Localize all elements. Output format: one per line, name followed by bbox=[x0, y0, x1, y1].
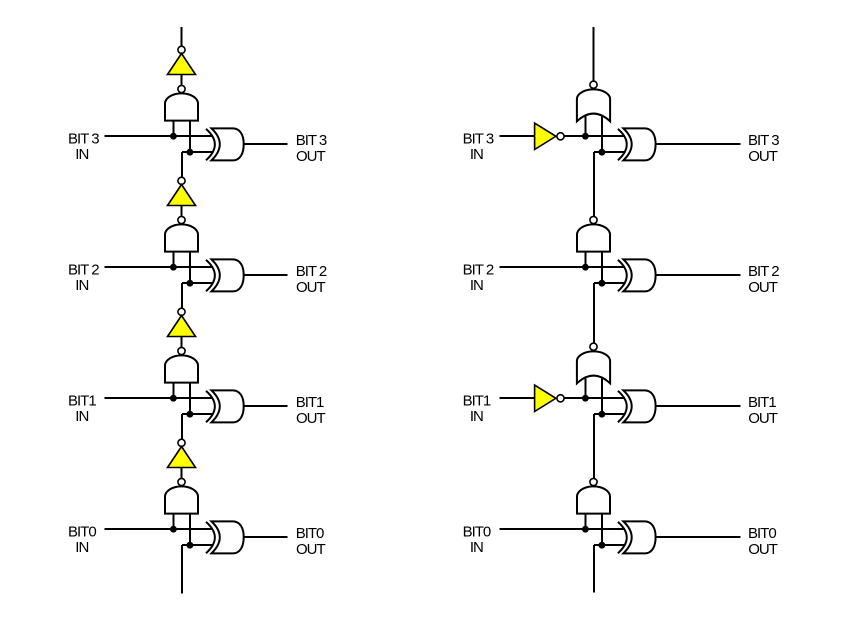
svg-text:OUT: OUT bbox=[748, 148, 778, 165]
wire: NAND right input leg (BIT 3, left col) bbox=[189, 120, 191, 152]
junction node: BIT1 IN to NAND left input bbox=[170, 395, 177, 402]
svg-text:OUT: OUT bbox=[296, 148, 326, 165]
svg-text:BIT1: BIT1 bbox=[68, 392, 96, 409]
svg-text:BIT 3: BIT 3 bbox=[748, 132, 779, 149]
junction node: BIT1 IN to gate left input (right col) bbox=[582, 395, 589, 402]
wire: BIT0 IN line (left col) bbox=[104, 528, 213, 530]
NOR output bubble (BIT 3, right col) bbox=[590, 81, 597, 88]
wire: NAND right input leg (BIT1, left col) bbox=[189, 382, 191, 414]
XOR gate (BIT1, right col) bbox=[618, 391, 627, 422]
svg-text:IN: IN bbox=[75, 146, 88, 163]
wire: top input stub of left column bbox=[181, 27, 183, 47]
svg-text:IN: IN bbox=[470, 539, 483, 556]
wire: XOR lower input (BIT 2, left col) bbox=[182, 282, 214, 284]
inverter triangle (BIT1 stage, left col) bbox=[168, 316, 196, 337]
junction node: BIT 2 IN to gate left input (right col) bbox=[582, 264, 589, 271]
NAND gate (BIT1, left col) bbox=[165, 355, 198, 382]
junction node: feedback to gate right input (BIT1, right col) bbox=[599, 411, 606, 418]
wire: NAND left input leg (BIT0, left col) bbox=[172, 513, 174, 529]
wire: vertical link to next stage below (BIT1, right col) bbox=[593, 414, 595, 478]
wire: NOR left input leg (BIT1, right col) bbox=[584, 377, 586, 398]
inverter triangle (BIT 2 stage, left col) bbox=[168, 185, 196, 206]
wire: XOR lower input (BIT 3, left col) bbox=[182, 151, 214, 153]
junction node: feedback to NAND right input (BIT0, left col) bbox=[187, 542, 194, 549]
junction node: feedback to NAND right input (BIT 2, left col) bbox=[187, 280, 194, 287]
XOR gate (BIT0, left col) bbox=[206, 522, 215, 553]
wire: inverter output to XOR (BIT 3, right col) bbox=[564, 135, 625, 137]
NAND gate (BIT 3, left col) bbox=[165, 93, 198, 120]
NAND output bubble (BIT1, left col) bbox=[178, 347, 185, 354]
wire: BIT 2 IN line (left col) bbox=[104, 266, 213, 268]
wire: NAND right input leg (BIT 2, left col) bbox=[189, 251, 191, 283]
svg-text:BIT 3: BIT 3 bbox=[463, 130, 494, 147]
inverter output bubble (BIT1, right col) bbox=[557, 395, 564, 402]
wire: NOR left input leg (BIT 3, right col) bbox=[584, 115, 586, 136]
wire: NAND left input leg (BIT 3, left col) bbox=[172, 120, 174, 136]
NOR gate (BIT1, right col) bbox=[577, 351, 610, 383]
NOR gate (BIT 3, right col) bbox=[577, 89, 610, 121]
wire: NOR right input leg (BIT1, right col) bbox=[601, 378, 603, 414]
wire: BIT1 IN line to inverter (right col) bbox=[500, 397, 535, 399]
junction node: BIT 3 IN to gate left input (right col) bbox=[582, 133, 589, 140]
wire: XOR lower input (BIT0, right col) bbox=[594, 544, 626, 546]
svg-text:IN: IN bbox=[75, 408, 88, 425]
inverter triangle (BIT1, right col) bbox=[535, 385, 556, 411]
inverter output bubble (BIT0 stage, left col) bbox=[178, 439, 185, 446]
svg-text:OUT: OUT bbox=[296, 541, 326, 558]
junction node: BIT 2 IN to NAND left input bbox=[170, 264, 177, 271]
junction node: BIT0 IN to gate left input (right col) bbox=[582, 526, 589, 533]
svg-text:IN: IN bbox=[470, 408, 483, 425]
XOR gate (BIT1, left col) bbox=[206, 391, 215, 422]
NAND gate (BIT 2, right col) bbox=[577, 224, 610, 251]
wire: XOR lower input (BIT 3, right col) bbox=[594, 151, 626, 153]
wire: vertical link to next stage below (BIT 2, right col) bbox=[593, 283, 595, 343]
wire: BIT 2 IN line (right col) bbox=[500, 266, 625, 268]
wire: NAND left input leg (BIT1, left col) bbox=[172, 382, 174, 398]
NAND output bubble (BIT0, left col) bbox=[178, 478, 185, 485]
junction node: feedback to gate right input (BIT 2, right col) bbox=[599, 280, 606, 287]
wire: inverter input from NAND (BIT 3, left col) bbox=[181, 75, 183, 86]
svg-text:IN: IN bbox=[75, 277, 88, 294]
wire: XOR lower input (BIT0, left col) bbox=[182, 544, 214, 546]
wire: bottom stub of left column bbox=[181, 545, 183, 593]
wire: NAND right input leg (BIT 2, right col) bbox=[601, 251, 603, 283]
svg-text:OUT: OUT bbox=[296, 279, 326, 296]
wire: inverter input from NAND (BIT0, left col) bbox=[181, 468, 183, 479]
wire: top input stub of right column bbox=[593, 27, 595, 81]
XOR gate (BIT 2, left col) bbox=[206, 260, 215, 291]
XOR gate (BIT 3, right col) bbox=[618, 129, 627, 160]
inverter triangle (BIT 3, right col) bbox=[535, 123, 556, 149]
wire: XOR lower input (BIT 2, right col) bbox=[594, 282, 626, 284]
svg-text:BIT 2: BIT 2 bbox=[68, 261, 99, 278]
wire: BIT 3 OUT line (right col) bbox=[656, 143, 741, 145]
svg-text:OUT: OUT bbox=[748, 410, 778, 427]
wire: BIT 3 IN line to inverter (right col) bbox=[500, 135, 535, 137]
svg-text:BIT0: BIT0 bbox=[68, 523, 96, 540]
wire: NAND left input leg (BIT0, right col) bbox=[584, 513, 586, 529]
NAND output bubble (BIT0, right col) bbox=[590, 478, 597, 485]
svg-text:BIT1: BIT1 bbox=[748, 394, 776, 411]
junction node: feedback to NAND right input (BIT 3, left col) bbox=[187, 149, 194, 156]
svg-text:OUT: OUT bbox=[296, 410, 326, 427]
XOR gate (BIT 2, right col) bbox=[618, 260, 627, 291]
wire: BIT 2 OUT line (left col) bbox=[244, 274, 288, 276]
junction node: feedback to gate right input (BIT0, right col) bbox=[599, 542, 606, 549]
wire: vertical link to next stage below (BIT 3, right col) bbox=[593, 152, 595, 216]
junction node: BIT0 IN to NAND left input bbox=[170, 526, 177, 533]
NAND output bubble (BIT 2, right col) bbox=[590, 216, 597, 223]
junction node: feedback to gate right input (BIT 3, right col) bbox=[599, 149, 606, 156]
wire: inverter output to XOR (BIT1, right col) bbox=[564, 397, 625, 399]
wire: BIT 2 OUT line (right col) bbox=[656, 274, 741, 276]
inverter triangle (BIT 3 stage, left col) bbox=[168, 54, 196, 75]
wire: BIT0 IN line (right col) bbox=[500, 528, 625, 530]
NAND gate (BIT 2, left col) bbox=[165, 224, 198, 251]
svg-text:BIT0: BIT0 bbox=[296, 525, 324, 542]
NAND gate (BIT0, left col) bbox=[165, 486, 198, 513]
wire: BIT1 OUT line (right col) bbox=[656, 405, 741, 407]
wire: BIT0 OUT line (right col) bbox=[656, 536, 741, 538]
svg-text:BIT1: BIT1 bbox=[296, 394, 324, 411]
svg-text:BIT1: BIT1 bbox=[463, 392, 491, 409]
wire: BIT 3 OUT line (left col) bbox=[244, 143, 288, 145]
wire: NAND right input leg (BIT0, right col) bbox=[601, 513, 603, 545]
inverter output bubble (BIT 3, right col) bbox=[557, 133, 564, 140]
wire: bottom stub of right column bbox=[593, 545, 595, 592]
inverter output bubble (BIT1 stage, left col) bbox=[178, 308, 185, 315]
wire: BIT 3 IN line (left col) bbox=[104, 135, 213, 137]
svg-text:BIT0: BIT0 bbox=[748, 525, 776, 542]
wire: vertical link to next stage below (BIT 3, left col) bbox=[181, 152, 183, 178]
wire: inverter input from NAND (BIT1, left col) bbox=[181, 337, 183, 348]
svg-text:BIT 2: BIT 2 bbox=[463, 261, 494, 278]
svg-text:OUT: OUT bbox=[748, 279, 778, 296]
junction node: feedback to NAND right input (BIT1, left col) bbox=[187, 411, 194, 418]
wire: BIT1 IN line (left col) bbox=[104, 397, 213, 399]
wire: NAND left input leg (BIT 2, left col) bbox=[172, 251, 174, 267]
wire: XOR lower input (BIT1, right col) bbox=[594, 413, 626, 415]
wire: BIT1 OUT line (left col) bbox=[244, 405, 288, 407]
svg-text:IN: IN bbox=[470, 146, 483, 163]
wire: XOR lower input (BIT1, left col) bbox=[182, 413, 214, 415]
XOR gate (BIT0, right col) bbox=[618, 522, 627, 553]
NAND output bubble (BIT 2, left col) bbox=[178, 216, 185, 223]
wire: vertical link to next stage below (BIT1, left col) bbox=[181, 414, 183, 440]
inverter output bubble (BIT 2 stage, left col) bbox=[178, 177, 185, 184]
wire: inverter input from NAND (BIT 2, left col) bbox=[181, 206, 183, 217]
inverter triangle (BIT0 stage, left col) bbox=[168, 447, 196, 468]
wire: NAND left input leg (BIT 2, right col) bbox=[584, 251, 586, 267]
svg-text:OUT: OUT bbox=[748, 541, 778, 558]
wire: BIT0 OUT line (left col) bbox=[244, 536, 288, 538]
svg-text:BIT 2: BIT 2 bbox=[296, 263, 327, 280]
svg-text:BIT 2: BIT 2 bbox=[748, 263, 779, 280]
svg-text:IN: IN bbox=[470, 277, 483, 294]
wire: NAND right input leg (BIT0, left col) bbox=[189, 513, 191, 545]
NAND output bubble (BIT 3, left col) bbox=[178, 85, 185, 92]
NOR output bubble (BIT1, right col) bbox=[590, 343, 597, 350]
svg-text:BIT0: BIT0 bbox=[463, 523, 491, 540]
NAND gate (BIT0, right col) bbox=[577, 486, 610, 513]
wire: vertical link to next stage below (BIT 2, left col) bbox=[181, 283, 183, 309]
svg-text:BIT 3: BIT 3 bbox=[68, 130, 99, 147]
svg-text:BIT 3: BIT 3 bbox=[296, 132, 327, 149]
inverter output bubble (BIT 3 stage, left col) bbox=[178, 46, 185, 53]
wire: NOR right input leg (BIT 3, right col) bbox=[601, 116, 603, 152]
junction node: BIT 3 IN to NAND left input bbox=[170, 133, 177, 140]
XOR gate (BIT 3, left col) bbox=[206, 129, 215, 160]
svg-text:IN: IN bbox=[75, 539, 88, 556]
